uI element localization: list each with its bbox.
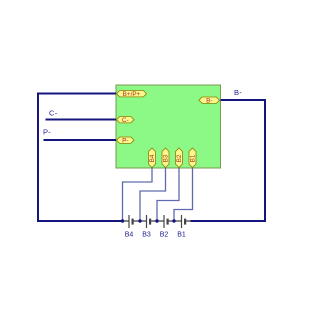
battery B4 <box>123 215 147 228</box>
junction B1 tap <box>172 219 175 222</box>
wire P- <box>44 139 117 141</box>
pin C- <box>117 117 135 124</box>
battery B2 <box>164 215 182 228</box>
svg-text:B2: B2 <box>176 154 183 162</box>
svg-text:B2: B2 <box>160 232 169 239</box>
wire B- loop (B- pin to battery negative) <box>191 100 266 221</box>
pin B4 (bottom) <box>149 148 157 168</box>
pin B1 (bottom) <box>189 148 197 168</box>
junction B3 tap <box>138 219 141 222</box>
svg-text:B4: B4 <box>125 232 134 239</box>
wire sense B2 <box>157 167 179 221</box>
pin B- <box>199 97 220 104</box>
junction pack+ <box>121 219 124 222</box>
svg-text:B-: B- <box>234 88 242 97</box>
svg-text:B-: B- <box>206 97 212 104</box>
battery B3 <box>147 215 165 228</box>
svg-text:P-: P- <box>43 128 51 137</box>
pin B2 (bottom) <box>176 148 184 168</box>
svg-text:C-: C- <box>122 117 129 124</box>
wire B+ loop (B+/P+ pin to battery positive) <box>38 94 123 222</box>
wire sense B4 <box>123 167 153 221</box>
svg-text:B4: B4 <box>149 154 156 162</box>
svg-text:C-: C- <box>49 108 58 117</box>
svg-text:B1: B1 <box>190 154 197 162</box>
battery B1 <box>182 215 191 228</box>
pin B3 (bottom) <box>162 148 170 168</box>
svg-text:B3: B3 <box>163 154 170 162</box>
wire sense B1 <box>174 167 193 221</box>
module U1 (BMS protection block) <box>116 85 221 168</box>
svg-text:B3: B3 <box>142 232 151 239</box>
svg-text:B+/P+: B+/P+ <box>123 91 141 98</box>
wire C- <box>46 119 117 121</box>
junction B2 tap <box>155 219 158 222</box>
pin P- <box>117 137 135 144</box>
svg-text:P-: P- <box>122 137 128 144</box>
wire sense B3 <box>140 167 166 221</box>
svg-text:B1: B1 <box>177 232 186 239</box>
pin B+/P+ <box>117 91 147 98</box>
